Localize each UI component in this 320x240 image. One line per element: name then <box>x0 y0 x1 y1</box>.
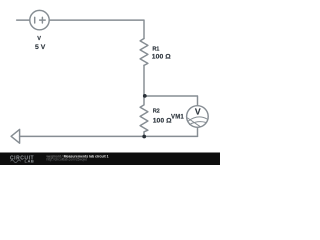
svg-text:LAB: LAB <box>25 159 35 164</box>
CircuitLab logo wave <box>11 160 21 163</box>
wire: R1 bottom to node A <box>143 65 145 96</box>
svg-text:R1: R1 <box>152 46 159 52</box>
CircuitLab logo text <box>10 156 34 164</box>
voltmeter needle <box>188 118 201 127</box>
V source minus mark <box>34 17 36 23</box>
svg-text:5 V: 5 V <box>35 44 46 51</box>
svg-text:V: V <box>195 106 201 116</box>
wire: V source right to top-right corner, down to R1 top <box>49 20 144 38</box>
ground (left-pointing triangle) <box>11 129 20 143</box>
svg-text:V: V <box>37 36 41 42</box>
wire: top-left stub to V source <box>17 19 30 21</box>
svg-text:http://circuitlab.com/c5wqwt: http://circuitlab.com/c5wqwt <box>47 158 87 162</box>
svg-text:100 Ω: 100 Ω <box>153 118 172 125</box>
voltage source V circle <box>30 10 49 29</box>
wire: voltmeter bottom to bottom rail <box>197 127 199 136</box>
svg-text:R2: R2 <box>153 109 160 115</box>
svg-text:100 Ω: 100 Ω <box>152 53 171 60</box>
wire: bottom rail <box>20 135 198 137</box>
voltmeter meter arc 1 <box>188 117 207 121</box>
V source plus mark <box>40 17 46 23</box>
watermark bar <box>0 153 220 166</box>
node A junction dot <box>143 94 147 98</box>
wire: node A to voltmeter top <box>144 96 198 106</box>
voltmeter meter arc 2 <box>189 122 205 125</box>
resistor R1 zigzag <box>140 39 148 66</box>
svg-text:VM1: VM1 <box>171 114 184 120</box>
voltmeter VM1 circle <box>187 106 209 128</box>
resistor R2 zigzag <box>140 96 148 136</box>
bottom rail junction dot <box>142 135 146 139</box>
